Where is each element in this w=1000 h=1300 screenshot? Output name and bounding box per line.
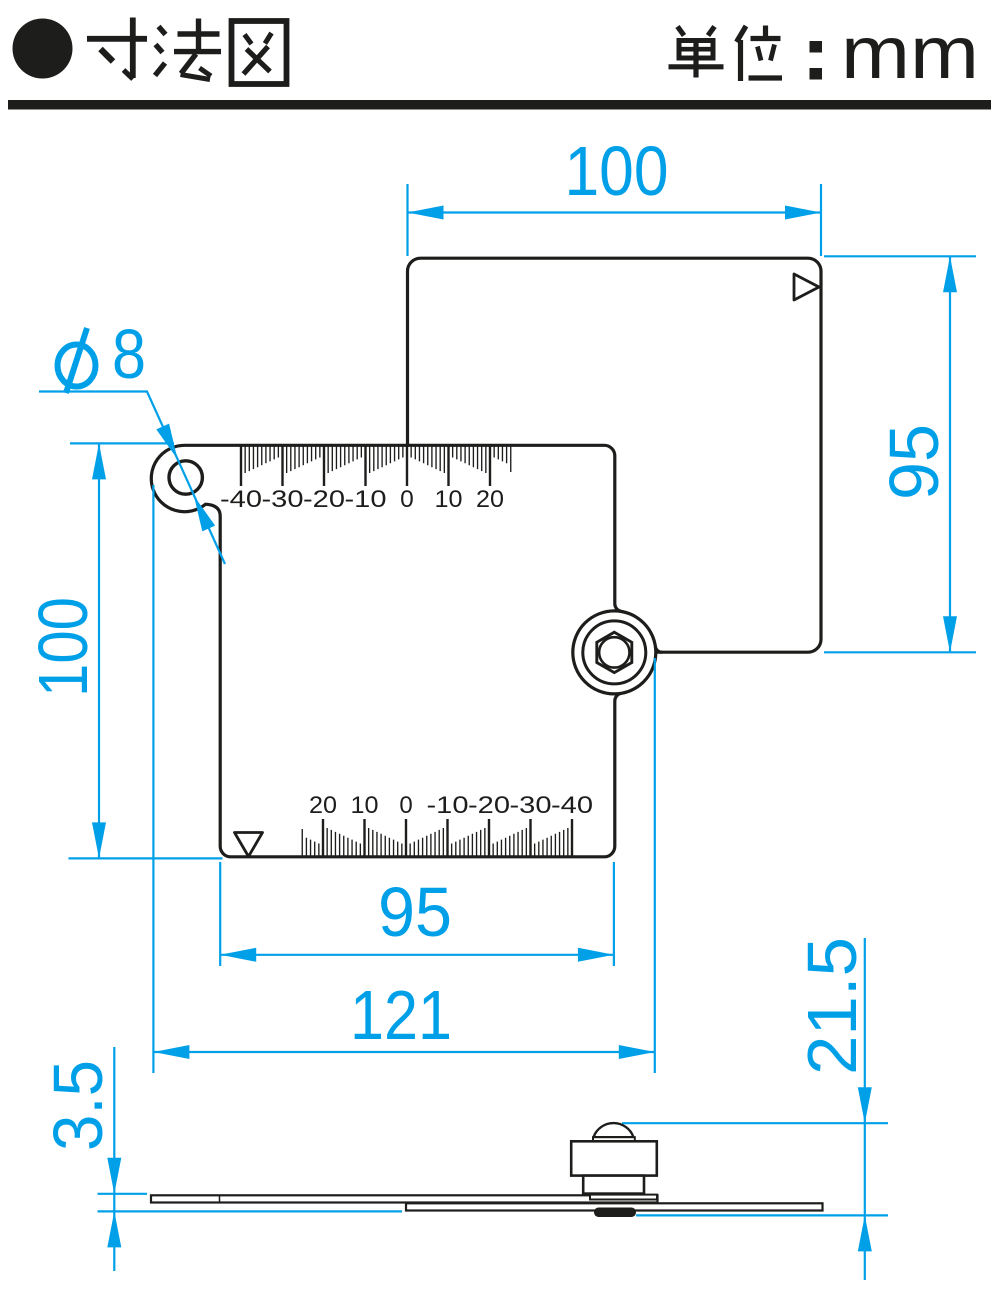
svg-text:100: 100 bbox=[565, 132, 669, 210]
svg-text:-10: -10 bbox=[345, 486, 387, 513]
header kanji HOU (法) bbox=[155, 19, 221, 80]
svg-text:95: 95 bbox=[875, 424, 953, 500]
upper plate (back square 100x95) bbox=[408, 258, 822, 652]
tab hole (phi 8) bbox=[169, 461, 202, 494]
header bullet bbox=[13, 19, 73, 79]
triangle marker on upper plate bbox=[794, 274, 819, 300]
top ruler minor ticks bbox=[245, 444, 511, 473]
phi 8 leader line bbox=[39, 392, 225, 565]
header fullwidth colon bbox=[810, 41, 823, 53]
svg-text:20: 20 bbox=[309, 792, 337, 819]
bolt hex bbox=[597, 632, 632, 672]
side view plate A seam bbox=[219, 1195, 221, 1202]
header rule bbox=[8, 100, 991, 110]
lower plate (front square 95x100 with tab and fillets at bolt) bbox=[151, 445, 655, 857]
svg-text:121: 121 bbox=[350, 976, 452, 1054]
side view knob body bbox=[571, 1141, 657, 1175]
side view plate A bbox=[151, 1195, 658, 1202]
header kanji TAN (単) bbox=[669, 27, 724, 78]
bottom ruler major ticks bbox=[323, 819, 572, 857]
dimension 121 bbox=[153, 485, 654, 1073]
top ruler major ticks bbox=[241, 444, 490, 486]
header kanji SUN (寸) bbox=[87, 18, 147, 80]
svg-text:21.5: 21.5 bbox=[793, 937, 871, 1075]
svg-text:-30: -30 bbox=[262, 486, 304, 513]
dimension 21.5 bbox=[622, 938, 888, 1280]
header kanji I (位) bbox=[737, 26, 783, 82]
side view under nut bbox=[594, 1208, 636, 1218]
svg-text:0: 0 bbox=[400, 486, 414, 513]
svg-text:8: 8 bbox=[112, 315, 146, 393]
svg-text:20: 20 bbox=[476, 486, 504, 513]
svg-text:-20: -20 bbox=[303, 486, 345, 513]
svg-text:-40: -40 bbox=[551, 792, 593, 819]
svg-text:0: 0 bbox=[399, 792, 412, 819]
dimension 100 left bbox=[69, 443, 223, 858]
header kanji ZU (図) bbox=[232, 21, 287, 84]
bottom ruler minor ticks bbox=[302, 828, 568, 857]
dimension 3.5 bbox=[98, 1047, 403, 1271]
svg-text:100: 100 bbox=[24, 597, 102, 697]
phi 8 label bbox=[58, 328, 96, 393]
top ruler numbers bbox=[220, 486, 504, 513]
dimension 95 right bbox=[824, 256, 976, 652]
side view plate B bbox=[406, 1203, 823, 1210]
svg-text:-40: -40 bbox=[220, 486, 262, 513]
svg-text:-20: -20 bbox=[468, 792, 510, 819]
svg-text:95: 95 bbox=[378, 873, 452, 951]
svg-text:10: 10 bbox=[435, 486, 463, 513]
svg-text:-10: -10 bbox=[427, 792, 469, 819]
side view knob collar bbox=[593, 1137, 635, 1141]
svg-text:mm: mm bbox=[841, 11, 979, 94]
side view knob dome bbox=[594, 1123, 634, 1137]
triangle marker on lower plate bbox=[235, 833, 263, 857]
side view knob neck bbox=[583, 1176, 644, 1194]
bottom ruler numbers bbox=[309, 792, 593, 819]
upper plate bottom edge fillet at bolt bbox=[655, 646, 662, 652]
dimension 100 top bbox=[408, 184, 822, 256]
side view washer bbox=[590, 1195, 657, 1200]
bolt middle circle bbox=[583, 621, 646, 684]
svg-text:10: 10 bbox=[351, 792, 379, 819]
svg-text:-30: -30 bbox=[510, 792, 552, 819]
svg-text:3.5: 3.5 bbox=[39, 1060, 117, 1151]
bolt inner circle bbox=[599, 637, 629, 667]
bolt outer circle bbox=[573, 611, 656, 694]
dimension 95 bottom bbox=[220, 862, 614, 966]
